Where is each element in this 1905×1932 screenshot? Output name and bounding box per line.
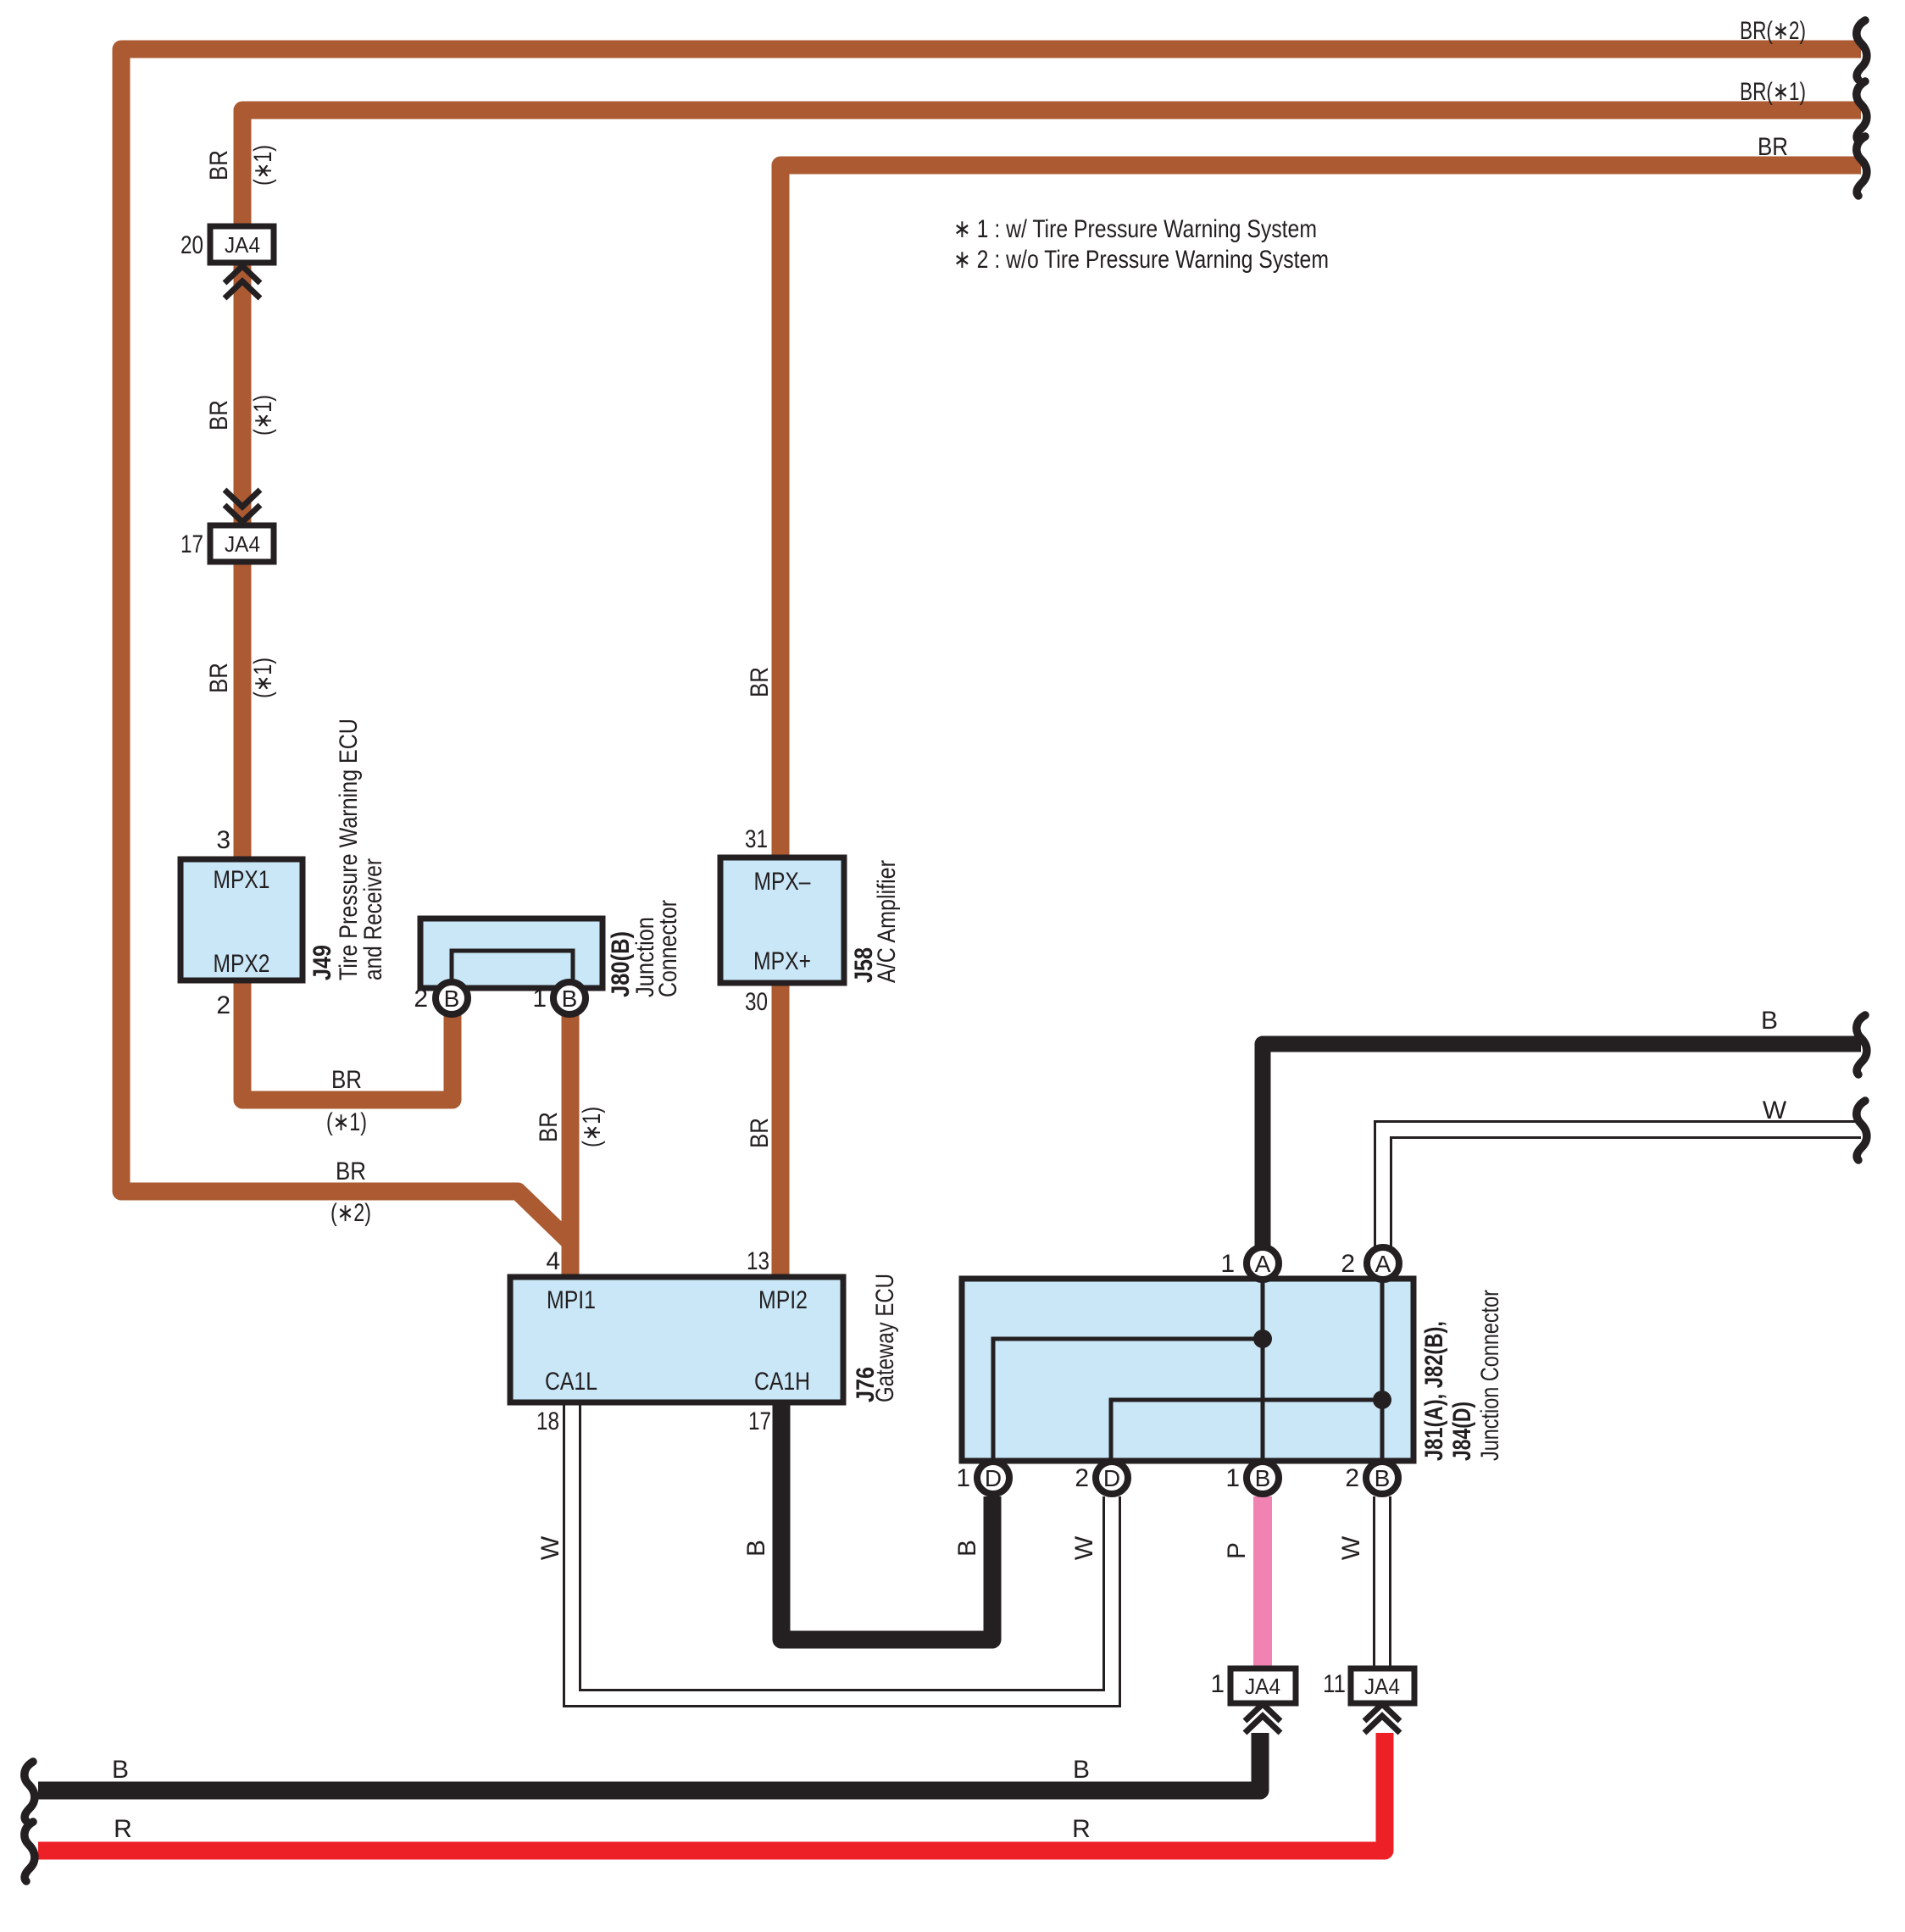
svg-text:2: 2 <box>1341 1250 1355 1278</box>
svg-text:D: D <box>985 1465 1002 1491</box>
connector JA4 pin1 box <box>1230 1668 1296 1703</box>
wire B top right <box>1263 1044 1861 1247</box>
svg-text:A/C Amplifier: A/C Amplifier <box>873 860 901 983</box>
svg-text:2: 2 <box>216 991 230 1019</box>
J81 internal bus 1D to node <box>993 1339 1263 1458</box>
svg-text:17: 17 <box>748 1407 771 1435</box>
svg-text:4: 4 <box>546 1247 560 1275</box>
svg-text:Gateway ECU: Gateway ECU <box>871 1274 899 1402</box>
svg-text:CA1H: CA1H <box>754 1368 810 1396</box>
svg-text:31: 31 <box>745 825 768 853</box>
svg-text:BR(∗2): BR(∗2) <box>1740 17 1806 45</box>
wire W 2B to JA4-11 (white) <box>1373 1496 1391 1670</box>
svg-text:1: 1 <box>1225 1464 1240 1492</box>
wire BR(*2) top left long <box>121 49 1861 1244</box>
pin circle J81 2B <box>1366 1462 1398 1494</box>
svg-text:(∗1): (∗1) <box>249 145 277 186</box>
J80 internal bus bar <box>452 951 573 985</box>
svg-text:13: 13 <box>747 1247 769 1275</box>
svg-text:3: 3 <box>216 826 230 854</box>
chevrons below JA4-20 <box>225 266 260 298</box>
break squiggle W right <box>1857 1101 1867 1160</box>
pin circle J81 1B <box>1247 1462 1279 1494</box>
svg-text:and Receiver: and Receiver <box>359 858 387 980</box>
svg-text:MPX2: MPX2 <box>214 950 270 978</box>
box J49 Tire Pressure Warning ECU <box>181 859 303 980</box>
pin circle J81 1A <box>1247 1247 1279 1280</box>
svg-text:P: P <box>1223 1542 1251 1559</box>
svg-text:JA4: JA4 <box>1245 1674 1280 1699</box>
svg-text:R: R <box>1072 1815 1091 1843</box>
break squiggle B left <box>25 1762 35 1821</box>
pin circle J80 1B <box>553 982 586 1014</box>
svg-text:1: 1 <box>1220 1250 1235 1278</box>
svg-text:18: 18 <box>536 1407 559 1435</box>
pin circle J81 2A <box>1367 1247 1399 1280</box>
svg-text:B: B <box>1073 1756 1090 1784</box>
junction dot 2 <box>1373 1391 1391 1409</box>
svg-text:Junction Connector: Junction Connector <box>1476 1290 1504 1461</box>
box J80(B) junction connector <box>420 919 603 988</box>
connector JA4 pin11 box <box>1351 1668 1414 1703</box>
svg-text:BR: BR <box>1758 133 1788 161</box>
break squiggle BR(*1) right <box>1857 81 1867 141</box>
svg-text:W: W <box>1337 1535 1365 1560</box>
svg-text:Connector: Connector <box>654 900 682 997</box>
junction dot 1 <box>1253 1330 1272 1348</box>
pin circle J81 1D <box>977 1462 1009 1494</box>
svg-text:(∗2): (∗2) <box>330 1199 371 1227</box>
wire P pink 1B to JA4 <box>1253 1496 1272 1670</box>
pin circle J80 2B <box>436 982 468 1014</box>
box J76 gateway ECU <box>510 1277 843 1402</box>
svg-text:A: A <box>1375 1251 1391 1277</box>
wire B CA1H to 1D loop <box>781 1402 992 1640</box>
svg-text:1: 1 <box>1210 1670 1225 1698</box>
wire BR J49 pin2 to J80 pin2B <box>242 982 453 1100</box>
svg-text:MPX+: MPX+ <box>753 947 811 975</box>
chevrons above JA4-17 <box>225 490 260 522</box>
svg-text:B: B <box>112 1756 129 1784</box>
box J81/J82/J84 junction connector <box>962 1279 1413 1461</box>
break squiggle R left <box>25 1822 35 1881</box>
svg-text:BR: BR <box>535 1112 563 1142</box>
J81 internal bus 2D to node <box>1111 1400 1382 1458</box>
connector JA4 pin17 box <box>210 525 274 562</box>
svg-text:D: D <box>1103 1465 1120 1491</box>
svg-text:30: 30 <box>745 988 768 1016</box>
svg-text:W: W <box>536 1535 564 1560</box>
svg-text:J49: J49 <box>308 945 336 980</box>
svg-text:2: 2 <box>1075 1464 1089 1492</box>
svg-text:B: B <box>562 985 578 1012</box>
svg-text:A: A <box>1255 1251 1271 1277</box>
svg-text:2: 2 <box>1345 1464 1359 1492</box>
svg-text:20: 20 <box>181 231 203 259</box>
wire W CA1L to 2D loop (white) <box>572 1402 1112 1698</box>
wire BR to J58 pin31 <box>780 165 1861 858</box>
chevrons below JA4-1 <box>1245 1704 1280 1733</box>
svg-text:11: 11 <box>1323 1670 1346 1698</box>
svg-text:CA1L: CA1L <box>545 1368 597 1396</box>
svg-text:BR: BR <box>336 1158 366 1185</box>
svg-text:MPX1: MPX1 <box>214 866 270 894</box>
break squiggle BR right <box>1857 136 1867 196</box>
svg-text:MPI2: MPI2 <box>758 1286 808 1314</box>
svg-text:BR: BR <box>746 1118 774 1148</box>
svg-text:2: 2 <box>414 985 428 1013</box>
connector JA4 pin20 box <box>210 226 274 263</box>
break squiggle BR(*2) right <box>1857 20 1867 80</box>
svg-text:∗ 1 : w/ Tire Pressure Warning: ∗ 1 : w/ Tire Pressure Warning System <box>953 215 1317 243</box>
svg-text:JA4: JA4 <box>225 531 260 557</box>
svg-text:BR: BR <box>205 663 233 693</box>
svg-text:∗ 2 : w/o Tire Pressure Warnin: ∗ 2 : w/o Tire Pressure Warning System <box>953 246 1329 274</box>
svg-text:B: B <box>444 985 460 1012</box>
svg-text:B: B <box>1761 1007 1778 1035</box>
svg-text:1: 1 <box>956 1464 970 1492</box>
svg-text:BR(∗1): BR(∗1) <box>1740 78 1806 106</box>
break squiggle B right <box>1857 1015 1867 1074</box>
wire BR J58 pin30 to J76 pin13 <box>772 983 790 1279</box>
svg-text:JA4: JA4 <box>225 232 260 258</box>
wire R bottom long <box>38 1733 1385 1851</box>
svg-text:B: B <box>742 1540 770 1557</box>
svg-text:(∗1): (∗1) <box>578 1107 606 1147</box>
wire BR(*1) second <box>242 110 1861 859</box>
svg-text:1: 1 <box>532 985 547 1013</box>
svg-text:MPX–: MPX– <box>754 868 811 896</box>
svg-text:17: 17 <box>181 530 203 558</box>
svg-text:(∗1): (∗1) <box>326 1108 367 1136</box>
chevrons below JA4-11 <box>1364 1704 1400 1733</box>
svg-text:R: R <box>114 1815 132 1843</box>
svg-text:MPI1: MPI1 <box>547 1286 596 1314</box>
svg-text:(∗1): (∗1) <box>249 658 277 698</box>
wire B bottom long <box>38 1733 1260 1790</box>
pin circle J81 2D <box>1096 1462 1128 1494</box>
svg-text:J84(D): J84(D) <box>1448 1402 1476 1461</box>
svg-text:BR: BR <box>331 1066 362 1094</box>
svg-text:B: B <box>1375 1465 1391 1491</box>
svg-text:JA4: JA4 <box>1364 1674 1400 1699</box>
svg-text:BR: BR <box>746 667 774 697</box>
svg-text:W: W <box>1763 1096 1787 1124</box>
svg-text:(∗1): (∗1) <box>249 395 277 436</box>
svg-text:B: B <box>953 1540 981 1557</box>
box J58 A/C amplifier <box>720 858 844 983</box>
svg-text:BR: BR <box>205 400 233 430</box>
J81 internal bus 2A to 2B <box>1380 1281 1385 1458</box>
J81 internal bus 1A to 1B <box>1261 1281 1265 1458</box>
svg-text:W: W <box>1070 1535 1098 1560</box>
svg-text:BR: BR <box>205 150 233 180</box>
svg-text:B: B <box>1255 1465 1271 1491</box>
wire W top right (white) <box>1383 1130 1861 1247</box>
wire BR J80 pin1B to J76 pin4 <box>562 1015 580 1279</box>
svg-text:J81(A), J82(B),: J81(A), J82(B), <box>1420 1321 1448 1461</box>
